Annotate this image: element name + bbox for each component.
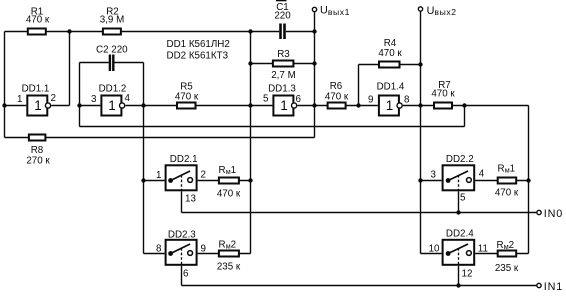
wire IN0 rail	[182, 212, 537, 214]
svg-text:12: 12	[462, 269, 473, 280]
capacitor C2	[96, 45, 128, 71]
wire vertical x=250	[250, 32, 252, 254]
svg-text:1: 1	[280, 98, 288, 113]
svg-text:DD2.1: DD2.1	[170, 154, 198, 165]
switch control dashed line DD2.1	[181, 175, 183, 190]
svg-text:13: 13	[185, 194, 196, 205]
wire C2 loop right vertical	[143, 63, 145, 254]
wire DD2.1 input	[144, 180, 165, 182]
svg-text:DD1.4: DD1.4	[377, 82, 405, 93]
switch open contact DD2.4	[467, 251, 472, 256]
svg-text:8: 8	[156, 244, 162, 255]
node R3 right	[312, 61, 316, 65]
resistor R1	[26, 7, 50, 35]
svg-text:4: 4	[479, 169, 485, 180]
node pin12 on IN1	[456, 283, 460, 287]
wire C2 loop top right	[115, 62, 144, 64]
wire DD2.1 pin13 drop	[181, 191, 183, 212]
inversion bubble DD1.3	[292, 103, 297, 108]
svg-text:Uвых1: Uвых1	[320, 5, 350, 17]
node C1 right	[312, 29, 316, 33]
wire DD2.4 input	[421, 253, 442, 255]
svg-text:9: 9	[201, 244, 206, 255]
node pin5 on IN0	[456, 210, 460, 214]
resistor Rm2 left	[217, 240, 241, 273]
svg-text:3: 3	[91, 94, 97, 105]
svg-text:470 к: 470 к	[217, 189, 241, 200]
switch arm DD2.1	[171, 171, 191, 181]
node R4 right	[418, 62, 422, 66]
svg-text:470 к: 470 к	[175, 92, 199, 103]
wire IN1 rail	[182, 285, 537, 287]
wire DD2.2 output to node	[475, 180, 528, 182]
switch open contact DD2.2	[467, 178, 472, 183]
wire vertical from Uvyh1	[314, 12, 316, 137]
C1 left plate	[279, 24, 282, 40]
inversion bubble DD1.2	[120, 103, 125, 108]
wire C2 loop top left	[80, 62, 109, 64]
node top x250	[248, 29, 252, 33]
svg-text:1: 1	[108, 98, 116, 113]
node DD1.1 input	[2, 103, 6, 107]
wire top rail right of C1	[286, 31, 315, 33]
capacitor C1	[274, 0, 291, 39]
node DD2.1 input	[141, 178, 145, 182]
svg-text:DD1 К561ЛН2: DD1 К561ЛН2	[167, 39, 230, 50]
svg-text:DD2.2: DD2.2	[446, 154, 474, 165]
wire R8 rail	[5, 137, 315, 139]
svg-text:470 к: 470 к	[325, 92, 349, 103]
inverter DD1.4	[368, 82, 410, 116]
resistor R8	[26, 135, 50, 167]
resistor R6	[325, 81, 349, 109]
svg-text:2: 2	[51, 93, 56, 104]
svg-text:2: 2	[201, 170, 206, 181]
wire DD1.1 input	[5, 105, 27, 107]
svg-text:1: 1	[386, 98, 394, 113]
wire DD2.4 output to node	[475, 253, 528, 255]
switch DD2.2	[431, 154, 485, 203]
resistor R2	[100, 7, 125, 35]
svg-text:Uвых2: Uвых2	[427, 5, 457, 17]
wire R4 row	[359, 64, 421, 66]
switch contact dot DD2.2	[446, 178, 451, 183]
svg-text:6: 6	[296, 94, 302, 105]
inverter DD1.1	[17, 84, 56, 116]
svg-text:Rм2: Rм2	[497, 240, 515, 251]
svg-text:235 к: 235 к	[495, 263, 519, 274]
inverter DD1.2	[91, 84, 130, 116]
wire DD2.3 pin6 drop	[181, 266, 183, 286]
switch open contact DD2.3	[188, 251, 193, 256]
wire DD2.3 output to node	[198, 253, 251, 255]
wire right vertical x=528	[528, 106, 530, 254]
switch control dashed line DD2.2	[458, 175, 460, 190]
node DD2.2 input	[418, 178, 422, 182]
svg-text:220: 220	[274, 11, 291, 22]
wire mid rail	[80, 126, 465, 128]
wire DD2.2 input	[421, 180, 442, 182]
svg-text:DD2.4: DD2.4	[446, 228, 474, 239]
inversion bubble DD1.1	[45, 103, 50, 108]
svg-text:Rм2: Rм2	[219, 240, 237, 251]
resistor Rm1 left	[217, 165, 241, 200]
svg-text:5: 5	[263, 94, 269, 105]
svg-text:DD1.1: DD1.1	[22, 84, 50, 95]
C1 right plate	[283, 24, 286, 40]
svg-text:IN0: IN0	[544, 208, 563, 220]
part list note DD1/DD2	[167, 39, 230, 62]
node Rm1 left end	[248, 178, 252, 182]
switch contact dot DD2.4	[446, 251, 451, 256]
svg-text:DD1.3: DD1.3	[268, 84, 296, 95]
wire vertical x=464	[464, 106, 466, 127]
svg-text:10: 10	[429, 244, 440, 255]
terminal Uvyh2	[418, 5, 456, 17]
terminal IN1	[537, 281, 563, 293]
node R6-R4	[356, 103, 360, 107]
resistor Rm2 right	[495, 240, 519, 274]
svg-text:1: 1	[34, 98, 42, 113]
resistor R4	[378, 38, 402, 68]
svg-text:3: 3	[431, 169, 437, 180]
node R1-R2	[67, 29, 71, 33]
svg-text:235 к: 235 к	[217, 262, 241, 273]
wire DD1.2 input	[80, 105, 101, 107]
resistor R7	[431, 80, 455, 109]
svg-text:C2 220: C2 220	[96, 45, 128, 56]
svg-text:11: 11	[478, 244, 488, 255]
wire DD2.2 pin5 drop	[458, 191, 460, 212]
resistor R5	[175, 82, 199, 109]
switch control dashed line DD2.3	[181, 248, 183, 265]
wire DD1.4 output to right corner via R7	[403, 105, 529, 107]
wire DD2.3 input	[144, 253, 165, 255]
resistor Rm1 right	[495, 164, 519, 199]
svg-text:Rм1: Rм1	[498, 164, 516, 175]
wire DD2.4 pin12 drop	[458, 266, 460, 286]
switch DD2.1	[156, 154, 206, 205]
svg-text:R6: R6	[330, 81, 343, 92]
wire DD1.1 feedback vertical	[69, 32, 71, 106]
svg-text:DD2 К561КТ3: DD2 К561КТ3	[167, 51, 229, 62]
node R7 right	[462, 103, 466, 107]
switch contact dot DD2.3	[168, 251, 173, 256]
terminal IN0	[537, 208, 563, 220]
node DD1.2 input	[77, 103, 81, 107]
svg-text:9: 9	[368, 95, 373, 106]
svg-text:470 к: 470 к	[26, 15, 50, 26]
wire vertical from Uvyh2	[420, 12, 422, 254]
wire C2 loop left vertical	[79, 63, 81, 127]
node Rm1 right end	[526, 178, 530, 182]
svg-text:IN1: IN1	[544, 281, 563, 293]
svg-text:470 к: 470 к	[431, 89, 455, 100]
svg-text:470 к: 470 к	[495, 187, 519, 198]
wire R4 left vertical	[358, 65, 360, 106]
node DD1.4 output	[418, 103, 422, 107]
svg-text:4: 4	[125, 93, 131, 104]
svg-text:R3: R3	[277, 49, 290, 60]
svg-text:6: 6	[183, 269, 189, 280]
inversion bubble DD1.4	[397, 103, 402, 108]
svg-text:1: 1	[156, 170, 161, 181]
node DD1.2 output	[141, 103, 145, 107]
C2 right plate	[112, 55, 114, 72]
svg-text:5: 5	[460, 192, 466, 203]
inverter DD1.3	[263, 84, 301, 116]
svg-text:270 к: 270 к	[26, 156, 50, 167]
svg-text:DD2.3: DD2.3	[168, 230, 196, 241]
switch DD2.3	[156, 230, 206, 280]
wire DD1.2 output to DD1.3 via R5	[125, 105, 272, 107]
wire DD1.3 output to DD1.4 via R6	[297, 105, 378, 107]
switch arm DD2.4	[448, 244, 468, 254]
C2 left plate	[109, 55, 111, 72]
wire DD1.1 output	[51, 105, 69, 107]
switch contact dot DD2.1	[168, 178, 173, 183]
wire R3 row	[251, 63, 315, 65]
node DD1.3 input	[248, 103, 252, 107]
switch arm DD2.3	[171, 244, 191, 254]
svg-text:1: 1	[17, 94, 22, 105]
resistor R3	[271, 49, 296, 81]
svg-text:DD1.2: DD1.2	[99, 84, 127, 95]
switch DD2.4	[429, 228, 488, 279]
svg-text:R8: R8	[31, 145, 44, 156]
wire left vertical	[4, 32, 6, 138]
svg-text:470 к: 470 к	[378, 48, 402, 59]
wire top rail left of C1	[5, 31, 280, 33]
svg-text:8: 8	[404, 95, 410, 106]
terminal Uvyh1	[312, 5, 350, 17]
svg-text:Rм1: Rм1	[219, 165, 237, 176]
svg-text:2,7 М: 2,7 М	[271, 70, 296, 81]
switch control dashed line DD2.4	[458, 248, 460, 265]
svg-text:3,9 М: 3,9 М	[100, 15, 125, 26]
wire DD2.1 output to node	[198, 180, 251, 182]
node R3 left	[248, 61, 252, 65]
node DD1.3 output	[312, 103, 316, 107]
switch open contact DD2.1	[188, 178, 193, 183]
switch arm DD2.2	[448, 171, 468, 181]
